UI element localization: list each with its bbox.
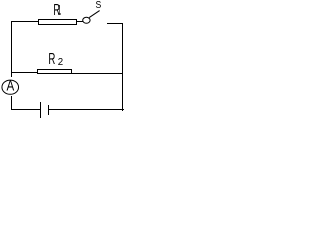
wire top-right horizontal (107, 23, 123, 24)
wire bottom-right horizontal (49, 109, 124, 110)
wire top-left horizontal (11, 21, 39, 22)
svg-text:1: 1 (58, 3, 62, 18)
resistor R1 (38, 19, 77, 25)
wire right vertical (122, 23, 123, 111)
wire left vertical (below ammeter) (11, 96, 12, 110)
wire R1 to switch (76, 21, 83, 22)
wire R2 to right vertical (71, 73, 123, 74)
battery B1 short plate (48, 105, 49, 115)
wire R2 branch left (11, 72, 38, 73)
wire left vertical (top) (11, 21, 12, 77)
ammeter A body (2, 80, 19, 94)
svg-text:2: 2 (58, 57, 63, 68)
battery B1 long plate (40, 102, 41, 118)
svg-text:S: S (96, 0, 102, 10)
wire bottom-left horizontal (11, 109, 40, 110)
resistor R2 (37, 69, 72, 74)
switch S blade (89, 11, 99, 18)
svg-text:A: A (6, 77, 14, 94)
svg-text:R: R (48, 49, 55, 67)
switch S contact circle (83, 17, 90, 23)
